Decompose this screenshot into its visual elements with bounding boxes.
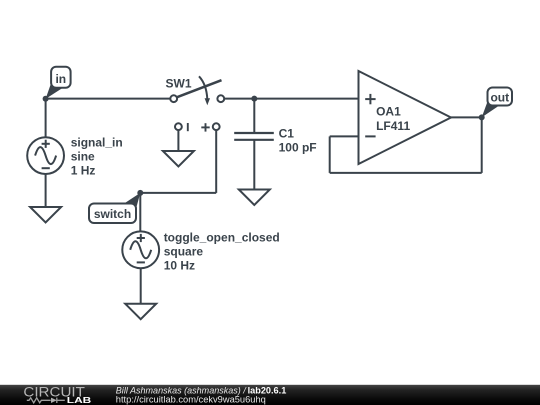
node flag out (482, 88, 512, 118)
svg-text:toggle_open_closed: toggle_open_closed (164, 231, 280, 245)
switch SW1 blade (177, 80, 222, 97)
node switch dot (137, 190, 143, 196)
ground (under C1) (239, 190, 270, 206)
ground (under SW1) (163, 151, 194, 167)
switch SW1 arrow head (205, 98, 210, 105)
svg-text:switch: switch (94, 207, 131, 221)
ground (under V1) (30, 207, 61, 223)
op-amp OA1 + input mark (365, 94, 375, 104)
wire: node in down to V1 top (45, 99, 47, 138)
wire: SW1 lower-left terminal to ground (177, 130, 179, 151)
op-amp OA1 - input mark (365, 135, 375, 137)
capacitor C1 top plate (234, 132, 274, 134)
capacitor C1 bottom plate (234, 139, 274, 141)
wire: SW1 right terminal to op-amp + input (224, 98, 358, 100)
switch SW1 lower-left terminal (175, 123, 182, 130)
svg-text:sine: sine (71, 150, 95, 164)
switch SW1 lower-right terminal (213, 123, 220, 130)
junction node at C1 (251, 96, 257, 102)
svg-text:http://circuitlab.com/cekv9wa5: http://circuitlab.com/cekv9wa5u6uhq (116, 394, 266, 404)
wire: C1 bottom plate to ground (253, 140, 255, 190)
svg-text:100 pF: 100 pF (279, 141, 317, 155)
svg-text:signal_in: signal_in (71, 136, 123, 150)
node flag switch (89, 193, 140, 223)
voltage source V1 signal_in body (27, 137, 64, 174)
wire: switch node down to V2 top (139, 193, 141, 232)
node flag in (46, 67, 71, 99)
CircuitLab logo resistor-diode squiggle (27, 398, 65, 403)
switch SW1 toggle arc (199, 76, 207, 99)
svg-text:10 Hz: 10 Hz (164, 259, 195, 273)
wire: feedback left vertical (329, 136, 331, 173)
switch SW1 position mark | (187, 123, 189, 131)
svg-text:SW1: SW1 (166, 77, 192, 91)
svg-text:1 Hz: 1 Hz (71, 164, 96, 178)
svg-text:out: out (490, 91, 509, 105)
wire: SW1 lower-right terminal down (215, 130, 217, 193)
svg-text:C1: C1 (279, 127, 295, 141)
switch SW1 left terminal (170, 95, 177, 102)
voltage source V2 toggle_open_closed body (122, 231, 159, 268)
wire: feedback from - input going left (330, 135, 359, 137)
wire: to switch node (140, 192, 216, 194)
wire: node in to SW1 left terminal (46, 98, 171, 100)
wire: op-amp output to node out (451, 116, 482, 118)
wire: V1 bottom to ground (45, 174, 47, 207)
wire: feedback bottom horizontal (330, 172, 482, 174)
svg-text:LF411: LF411 (376, 119, 410, 133)
node out dot (479, 114, 485, 120)
node in dot (43, 96, 49, 102)
wire: junction down to C1 top plate (253, 99, 255, 133)
svg-text:square: square (164, 245, 204, 259)
switch SW1 position mark + (201, 123, 209, 131)
svg-text:LAB: LAB (67, 396, 92, 405)
ground (under V2) (125, 304, 156, 320)
footer bar (0, 385, 540, 405)
switch SW1 right terminal (217, 95, 224, 102)
op-amp OA1 triangle (359, 71, 452, 164)
svg-text:OA1: OA1 (376, 105, 401, 119)
wire: V2 bottom to ground (140, 268, 142, 304)
svg-text:in: in (55, 72, 66, 86)
wire: feedback right vertical up to output node (481, 117, 483, 172)
